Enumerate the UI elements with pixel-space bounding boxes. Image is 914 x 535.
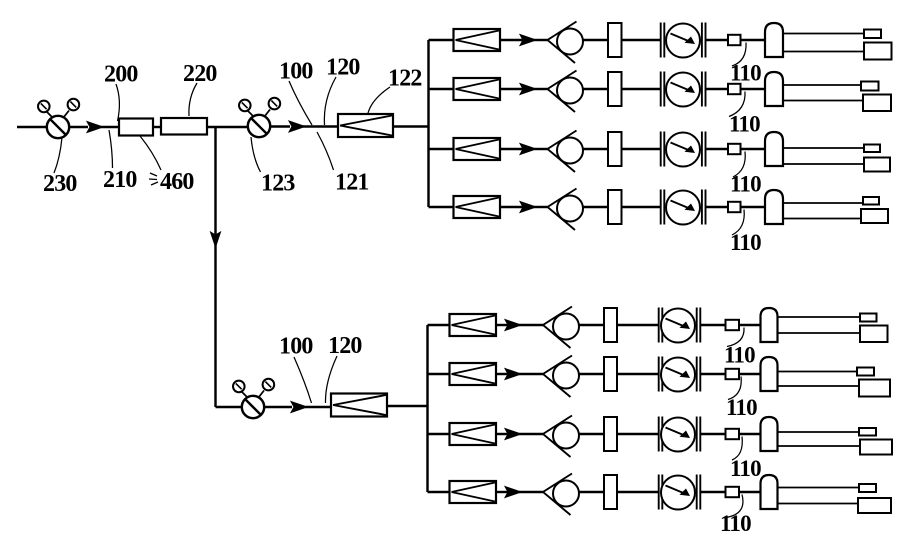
check valve T1: [548, 22, 584, 64]
check valve B2: [543, 356, 579, 398]
svg-text:110: 110: [729, 112, 760, 137]
arrow: [87, 122, 103, 133]
nozzle small T1: [864, 30, 881, 39]
filter FB3: [450, 423, 497, 445]
wire: [153, 126, 161, 128]
label 110 #6: [726, 377, 757, 421]
nozzle small B3: [859, 428, 876, 436]
wire: [534, 148, 548, 150]
fitting 110 (T2): [728, 84, 741, 94]
injector dome T4: [765, 190, 783, 224]
wire: [706, 88, 728, 90]
check valve B1: [543, 307, 579, 349]
wire branch T4: [429, 206, 454, 208]
check valve T4: [548, 189, 584, 231]
check valve T3: [548, 131, 584, 173]
flow meter T3: [661, 132, 706, 167]
wire: [739, 491, 761, 493]
wire: [579, 491, 604, 493]
wire: [101, 126, 119, 128]
nozzle large T3: [864, 158, 890, 172]
label 122: [368, 66, 422, 114]
arrow: [505, 320, 521, 331]
nozzle large B2: [859, 380, 890, 397]
wire: [519, 324, 543, 326]
wire: [701, 433, 726, 435]
orifice bar T4: [608, 190, 622, 224]
heater 220 / 460: [161, 118, 207, 135]
wire: [496, 433, 509, 435]
label 210: [103, 130, 137, 193]
check valve B4: [543, 474, 579, 516]
fitting 110 (T1): [728, 35, 741, 45]
wire branch B4: [428, 491, 450, 493]
filter FB1: [450, 314, 497, 336]
svg-text:110: 110: [730, 172, 761, 197]
wire: [739, 373, 761, 375]
injector dome T2: [765, 72, 783, 106]
injector dome B4: [761, 475, 778, 509]
fitting 110 (B2): [726, 369, 740, 379]
nozzle small B4: [859, 484, 876, 492]
orifice bar B1: [604, 308, 617, 342]
nozzle small T2: [861, 82, 879, 91]
fitting 110 (T4): [728, 202, 741, 212]
nozzle large B4: [858, 498, 891, 513]
wire: [583, 88, 608, 90]
wire pair: [778, 372, 861, 387]
MFC 122: [338, 114, 393, 137]
wire: [519, 491, 543, 493]
injector dome T1: [765, 23, 783, 57]
label 110 #4: [730, 210, 761, 256]
wire: [500, 88, 524, 90]
label 230: [43, 138, 77, 198]
orifice bar T1: [608, 23, 622, 57]
arrow: [291, 402, 307, 413]
wire branch T1: [429, 39, 454, 41]
filter FB2: [450, 363, 497, 385]
arrow down: [211, 232, 221, 247]
orifice bar B4: [604, 475, 617, 509]
filter FT1: [454, 29, 501, 51]
injector dome B3: [761, 417, 778, 451]
wire: [741, 39, 766, 41]
wire: [583, 206, 608, 208]
arrow: [520, 35, 536, 46]
flow meter T2: [661, 72, 706, 107]
wire: [617, 433, 659, 435]
flow meter B1: [659, 308, 701, 343]
wire: [741, 206, 766, 208]
filter FT4: [454, 196, 501, 218]
label 110 #1: [730, 43, 761, 86]
arrow: [520, 144, 536, 155]
wire: [579, 433, 604, 435]
svg-text:100: 100: [279, 334, 313, 360]
svg-text:220: 220: [183, 61, 217, 87]
wire: [617, 324, 659, 326]
flow meter T4: [661, 190, 706, 225]
label 121: [317, 132, 369, 196]
wire: [741, 88, 766, 90]
wire: [579, 324, 604, 326]
wire branch B2: [428, 373, 450, 375]
wire: [583, 39, 608, 41]
valve 123 (regulator with gauges): [239, 98, 290, 137]
nozzle small T3: [864, 145, 880, 153]
wire: [305, 406, 331, 408]
wire: [534, 39, 548, 41]
svg-text:230: 230: [43, 171, 77, 197]
wire pair: [783, 34, 865, 52]
wire pair: [783, 203, 864, 219]
flow meter B3: [659, 417, 701, 452]
wire: [583, 148, 608, 150]
nozzle large T4: [861, 209, 888, 223]
label 100: [279, 59, 313, 126]
wire: [500, 206, 524, 208]
svg-text:100: 100: [279, 59, 313, 85]
orifice bar T2: [608, 72, 622, 106]
nozzle large T2: [863, 95, 891, 112]
fitting 110 (B1): [726, 320, 740, 330]
svg-text:122: 122: [388, 66, 422, 92]
MFC 120 (bottom): [331, 394, 387, 417]
orifice bar B3: [604, 417, 617, 451]
label 460: [140, 136, 194, 195]
svg-text:123: 123: [261, 171, 295, 197]
label 120 #b: [325, 333, 362, 403]
wire branch T3: [429, 148, 454, 150]
wire: [534, 206, 548, 208]
svg-text:120: 120: [328, 333, 362, 359]
wire: [701, 324, 726, 326]
wire pair: [783, 148, 865, 164]
wire: [496, 373, 509, 375]
wire: [739, 433, 761, 435]
node junction: [214, 127, 216, 407]
arrow: [505, 487, 521, 498]
nozzle small T4: [863, 197, 879, 205]
wire: [579, 373, 604, 375]
arrow: [505, 369, 521, 380]
wire: [500, 148, 524, 150]
wire: [534, 88, 548, 90]
arrow: [289, 121, 305, 132]
orifice bar B2: [604, 357, 617, 391]
orifice bar T3: [608, 132, 622, 166]
fitting 110 (B3): [726, 429, 740, 439]
fitting 110 (B4): [726, 487, 740, 497]
wire: [393, 125, 430, 127]
wire: [622, 88, 661, 90]
injector dome B2: [761, 357, 778, 391]
wire pair: [778, 432, 862, 446]
filter FT2: [454, 78, 501, 100]
wire: [617, 373, 659, 375]
filter FB4: [450, 481, 497, 503]
flow meter B4: [659, 475, 701, 510]
nozzle small B1: [860, 314, 877, 322]
label 110 #5: [724, 328, 755, 368]
wire pair: [778, 317, 862, 333]
wire: [387, 405, 429, 407]
svg-text:200: 200: [104, 62, 138, 88]
nozzle large B3: [860, 440, 892, 455]
wire: [622, 148, 661, 150]
check valve B3: [543, 416, 579, 458]
injector dome B1: [761, 308, 778, 342]
wire: [701, 491, 726, 493]
wire pair: [778, 488, 861, 504]
manifold line bottom: [426, 325, 428, 492]
manifold line top: [427, 40, 429, 207]
wire inlet: [17, 126, 47, 128]
svg-text:110: 110: [730, 456, 761, 481]
wire: [741, 148, 766, 150]
flow meter T1: [661, 23, 706, 58]
nozzle large B1: [860, 326, 888, 343]
wire: [622, 206, 661, 208]
wire bottom feed: [216, 406, 243, 408]
check valve T2: [548, 71, 584, 113]
wire: [622, 39, 661, 41]
wire: [701, 373, 726, 375]
wire: [706, 206, 728, 208]
svg-text:121: 121: [335, 170, 369, 196]
wire: [739, 324, 761, 326]
valve 230 (regulator with gauges): [38, 99, 88, 138]
wire: [706, 39, 728, 41]
injector dome T3: [765, 132, 783, 166]
label 120: [324, 55, 360, 126]
filter FT3: [454, 138, 501, 160]
label 110 #7: [730, 437, 761, 482]
wire: [500, 39, 524, 41]
flow meter B2: [659, 357, 701, 392]
svg-text:110: 110: [730, 61, 761, 86]
svg-text:120: 120: [326, 55, 360, 81]
fitting 110 (T3): [728, 144, 741, 154]
label 100 #b: [279, 334, 313, 404]
label 123: [251, 137, 295, 197]
label 200: [104, 62, 138, 122]
arrow: [520, 202, 536, 213]
valve 100 (bottom regulator): [233, 379, 292, 418]
wire: [496, 324, 509, 326]
nozzle small B2: [857, 368, 874, 376]
label 110 #3: [730, 152, 761, 197]
label 110 #8: [720, 495, 751, 535]
wire: [207, 126, 249, 128]
wire branch B3: [428, 433, 450, 435]
nozzle large T1: [864, 43, 892, 60]
wire pair: [783, 85, 864, 101]
arrow: [505, 429, 521, 440]
wire: [706, 148, 728, 150]
heater 210: [119, 119, 153, 136]
wire: [617, 491, 659, 493]
wire branch T2: [429, 88, 454, 90]
leader ticks 460: [149, 173, 158, 185]
label 220: [183, 61, 217, 116]
wire: [496, 491, 509, 493]
wire: [519, 373, 543, 375]
svg-text:210: 210: [103, 167, 137, 193]
svg-text:460: 460: [160, 169, 194, 195]
wire 100/121: [303, 125, 338, 127]
wire: [519, 433, 543, 435]
label 110 #2: [729, 92, 760, 137]
arrow: [520, 84, 536, 95]
wire branch B1: [428, 324, 450, 326]
